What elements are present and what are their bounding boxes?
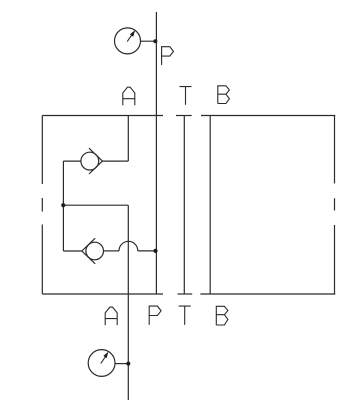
wire: A branch vertical down to page bottom bbox=[127, 205, 129, 400]
T channel: top cap bbox=[176, 115, 192, 117]
T channel: vertical line bbox=[183, 116, 185, 295]
label A (top) bbox=[123, 87, 135, 105]
check valve CV1 (top) ball bbox=[81, 152, 99, 170]
wire: left branch vertical bbox=[62, 161, 64, 251]
right block: bottom edge bbox=[200, 293, 335, 295]
right block: top edge bbox=[201, 115, 335, 117]
label B (bottom) bbox=[216, 306, 228, 325]
wire: bottom valve line left segment bbox=[63, 250, 82, 252]
right block: right edge (dash-dot) bbox=[334, 116, 336, 295]
left manifold block: left edge (dash-dot) bbox=[41, 116, 43, 295]
label T (bottom) bbox=[179, 306, 191, 325]
label T (top) bbox=[180, 87, 192, 105]
wire: crossover to P line bbox=[138, 250, 157, 252]
pressure gauge PG2 (bottom) bbox=[88, 350, 115, 377]
check valve CV2 (bottom) ball bbox=[86, 242, 104, 260]
right block: left edge bbox=[209, 116, 211, 295]
junction dot at P line / gauge tap bbox=[153, 39, 157, 43]
left manifold block: top edge bbox=[42, 115, 163, 117]
wire: bottom valve line to crossover bbox=[104, 250, 120, 252]
wire: gauge PG2 to A branch bbox=[115, 363, 129, 365]
wire: top valve line left segment bbox=[63, 160, 81, 162]
wire: middle link horizontal bbox=[63, 204, 128, 206]
T channel: bottom cap bbox=[178, 293, 193, 295]
label B (top) bbox=[218, 86, 230, 104]
wire: top valve line right segment bbox=[102, 160, 128, 162]
wire: P line vertical bbox=[155, 12, 157, 294]
label P (bottom) bbox=[149, 306, 161, 325]
check valve CV2 (bottom) seat bbox=[82, 238, 95, 264]
gauge PG2 needle bbox=[101, 357, 105, 363]
wire crossover hop over A branch bbox=[119, 241, 138, 251]
label A (bottom) bbox=[105, 307, 117, 325]
junction dot at A branch / gauge tap bbox=[126, 362, 130, 366]
left manifold block: bottom edge bbox=[42, 293, 163, 295]
label P (top) bbox=[162, 47, 174, 65]
wire: gauge PG1 to P line bbox=[140, 40, 156, 42]
junction dot at P line / valve line bbox=[153, 249, 157, 253]
gauge PG1 needle bbox=[127, 35, 131, 41]
check valve CV1 seat bbox=[89, 148, 102, 174]
pressure gauge PG1 (top) bbox=[115, 28, 141, 54]
wire: port A stub down from top edge bbox=[127, 116, 129, 162]
junction dot node J1 bbox=[61, 203, 65, 207]
